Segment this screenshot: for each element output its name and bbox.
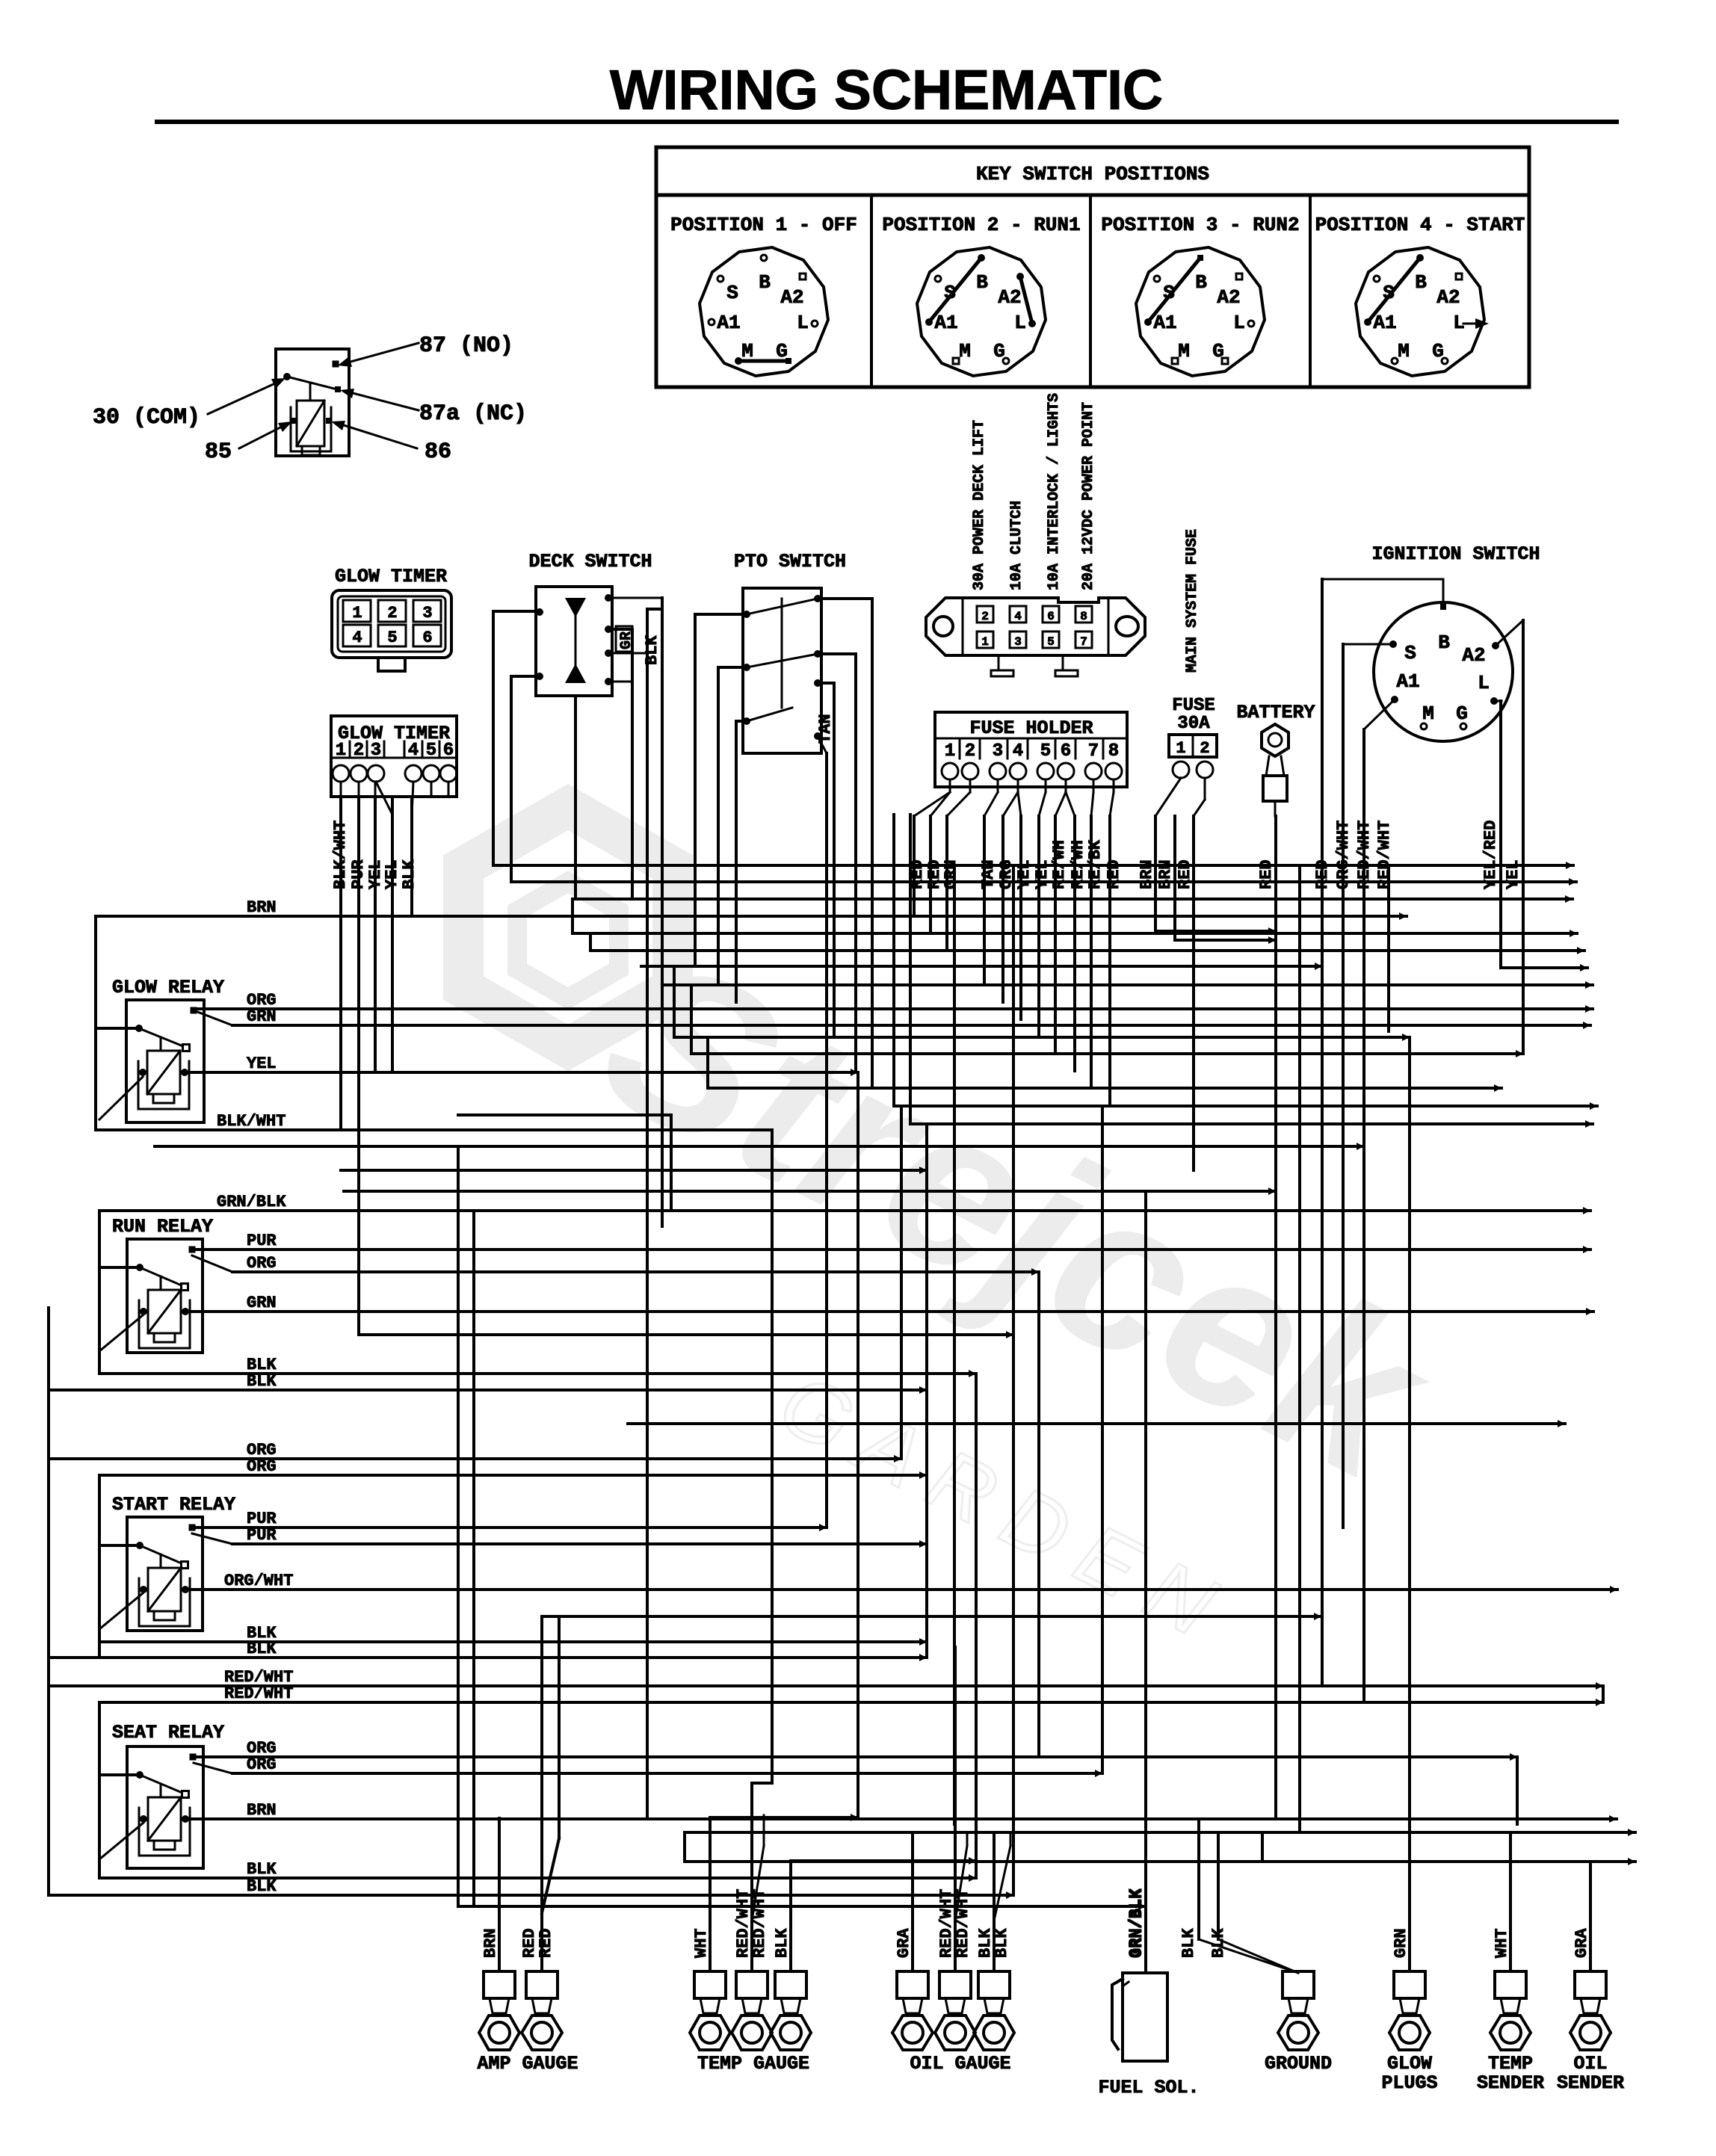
svg-text:2: 2 (981, 610, 989, 623)
svg-text:POSITION 1 - OFF: POSITION 1 - OFF (670, 214, 857, 236)
wire vertical x1033 (771, 1130, 774, 1783)
pto switch stub wires (695, 613, 747, 616)
wire vertical x634 (472, 1211, 475, 1906)
svg-text:OIL GAUGE: OIL GAUGE (910, 2053, 1010, 2075)
svg-text:L: L (797, 312, 809, 334)
wire vertical x1221 (911, 1832, 914, 1971)
svg-text:RUN RELAY: RUN RELAY (112, 1216, 213, 1238)
wire vertical x133 (98, 1211, 101, 1374)
svg-text:A2: A2 (1217, 286, 1240, 309)
svg-text:RED: RED (537, 1928, 555, 1958)
key switch circle position 1 OFF (700, 247, 828, 376)
svg-text:MAIN SYSTEM FUSE: MAIN SYSTEM FUSE (1184, 529, 1201, 673)
svg-text:1: 1 (945, 741, 955, 762)
svg-text:4: 4 (1014, 610, 1022, 623)
svg-text:YEL/RED: YEL/RED (1481, 821, 1500, 889)
svg-text:FUEL SOL.: FUEL SOL. (1098, 2077, 1199, 2098)
wire BLK y2536 (49, 1894, 1013, 1897)
svg-text:B: B (1195, 271, 1207, 294)
wire ORG y2351 (194, 1755, 1517, 1758)
wire vertical x1058 (789, 1861, 792, 1971)
wire vertical x1460 (1090, 816, 1093, 1088)
wire bus y1504 (910, 1122, 1593, 1125)
wire vertical x1630 (1217, 1832, 1220, 1939)
wire vertical x2128 (1589, 1862, 1592, 1971)
wire bus y2452 (685, 1831, 1635, 1834)
wire vertical x886 (661, 598, 664, 1226)
wire vertical x1572 (1173, 816, 1176, 940)
svg-text:M: M (959, 340, 971, 362)
svg-text:YEL: YEL (247, 1054, 277, 1073)
wire vertical x1689 (1261, 1832, 1264, 1862)
title underline (157, 120, 1617, 124)
glow relay (126, 1000, 204, 1122)
svg-text:A2: A2 (998, 286, 1021, 309)
wire vertical x1145 (854, 654, 857, 1071)
svg-text:3: 3 (993, 741, 1003, 762)
wire vertical x1306 (975, 1374, 978, 1878)
wire vertical x985 (735, 721, 738, 1002)
main fuse block body (926, 598, 1145, 655)
wire bus y1594 (344, 1190, 1276, 1193)
label 86 with leader (344, 425, 417, 448)
svg-text:GRN: GRN (247, 1294, 277, 1312)
wire vertical x1438 (1073, 816, 1076, 1071)
pto switch contacts (743, 611, 750, 618)
svg-text:1: 1 (981, 635, 989, 649)
wire ORG y1974 (99, 1474, 927, 1477)
svg-text:2: 2 (354, 741, 364, 761)
wire vertical x1858 (1387, 868, 1390, 1031)
oil gauge terminal GRA (897, 1971, 928, 1998)
wire ORG/WHT y2127 (192, 1588, 1617, 1591)
wire vertical x925 (690, 985, 693, 1054)
svg-text:5: 5 (387, 628, 397, 647)
fuel solenoid (1123, 1973, 1167, 2061)
svg-text:BLK: BLK (1179, 1928, 1198, 1958)
svg-text:FUSE HOLDER: FUSE HOLDER (969, 717, 1093, 739)
svg-text:M: M (1178, 340, 1190, 362)
ignition switch pins (1440, 604, 1446, 610)
wire vertical x1739 (1298, 868, 1301, 1832)
svg-text:BLK: BLK (247, 1640, 277, 1658)
svg-text:G: G (1456, 702, 1468, 725)
wire bus y1295 (1501, 966, 1587, 969)
wire BLK y2218 (49, 1656, 927, 1659)
svg-text:PUR: PUR (247, 1232, 277, 1250)
svg-text:2: 2 (965, 741, 975, 762)
svg-text:GRA: GRA (1573, 1928, 1591, 1958)
svg-text:GLOW RELAY: GLOW RELAY (112, 977, 224, 998)
wire vertical x128 (94, 916, 97, 1130)
svg-text:A1: A1 (1396, 670, 1419, 693)
wire vertical x456 (339, 797, 342, 1130)
svg-text:ORG: ORG (247, 1457, 277, 1476)
glow timer connector tab (378, 658, 405, 671)
svg-text:M: M (1422, 702, 1434, 725)
svg-text:5: 5 (426, 741, 436, 761)
wire vertical x961 (717, 667, 720, 985)
wire vertical x866 (646, 609, 649, 1819)
svg-text:2: 2 (1200, 739, 1209, 758)
svg-text:7: 7 (1088, 741, 1099, 762)
wire bus y2551 (458, 1905, 1146, 1908)
wire vertical x1356 (1012, 868, 1015, 1895)
svg-text:8: 8 (1080, 610, 1087, 623)
run relay (127, 1239, 203, 1353)
wire vertical x525 (391, 797, 394, 1072)
svg-text:BATTERY: BATTERY (1236, 702, 1315, 723)
wire bus y1534 (155, 1145, 1364, 1148)
run relay stub wires (99, 1266, 140, 1269)
svg-text:BLK: BLK (247, 1372, 277, 1391)
wire RED/WHT y2278 (99, 1701, 1603, 1704)
wire vertical x1167 (871, 599, 874, 1088)
svg-text:6: 6 (422, 628, 432, 647)
svg-text:BLK: BLK (247, 1877, 277, 1896)
svg-text:YEL: YEL (1504, 859, 1522, 889)
wire bus y1293 (641, 965, 1322, 968)
wire vertical x1604 (1197, 1819, 1200, 1939)
wire vertical x770 (574, 696, 577, 899)
wire YEL y1435 (185, 1071, 858, 1074)
temp gauge terminal BLK (775, 1971, 806, 1998)
wire bus y1158 (493, 864, 1573, 867)
svg-text:A1: A1 (717, 312, 740, 334)
label 85 with leader (239, 427, 280, 448)
wire vertical x1116 (833, 683, 836, 1037)
svg-text:5: 5 (1040, 741, 1051, 762)
label 87 (NO) with leader (351, 343, 419, 362)
wire vertical x502 (374, 797, 377, 1072)
relay pin detail box (276, 349, 349, 456)
main fuse block mounting tabs (991, 655, 1013, 676)
oil gauge terminal RED/WHT (939, 1971, 971, 1998)
svg-text:A1: A1 (1153, 312, 1176, 334)
wire PUR y1672 (192, 1248, 1590, 1251)
fuse holder box (935, 712, 1127, 787)
wire vertical x1277 (953, 865, 956, 1824)
wire bus y1492 (458, 1113, 671, 1116)
glow timer terminals (333, 765, 349, 782)
wire bus y2490 (791, 1859, 976, 1862)
svg-text:30 (COM): 30 (COM) (93, 405, 200, 430)
wire bus y1456 (708, 1087, 1501, 1090)
wire vertical x1196 (892, 815, 895, 1106)
wire vertical x1366 (1019, 816, 1022, 1019)
svg-text:GROUND: GROUND (1265, 2053, 1332, 2075)
svg-text:GRN/BLK: GRN/BLK (1128, 1888, 1146, 1958)
wire ORG y1952 (49, 1457, 901, 1460)
wire vertical x725 (540, 1616, 543, 1971)
deck switch box (536, 587, 612, 696)
svg-text:B: B (1415, 271, 1427, 294)
glow timer terminal wires (340, 782, 342, 797)
svg-text:10A CLUTCH: 10A CLUTCH (1008, 501, 1025, 590)
svg-text:RED/WHT: RED/WHT (750, 1889, 769, 1958)
svg-text:20A 12VDC POWER POINT: 20A 12VDC POWER POINT (1080, 402, 1097, 590)
wire vertical x1342 (1001, 816, 1004, 1002)
svg-text:TEMP: TEMP (1488, 2053, 1533, 2075)
pto switch box (743, 588, 821, 753)
label 30 (COM) with leader (208, 384, 274, 414)
key switch circle position 4 START (1356, 247, 1484, 376)
wire vertical x551 (410, 797, 413, 916)
wire vertical x1278 (954, 1647, 957, 1971)
ignition switch S wire (1343, 643, 1393, 646)
wire vertical x660 (492, 611, 495, 865)
wire vertical x65 (47, 1308, 50, 1895)
amp gauge terminal BRN (484, 1971, 515, 1998)
wire BLK y1838 (99, 1372, 976, 1375)
wire vertical x1148 (857, 1072, 859, 1817)
wire vertical x1769 (1321, 579, 1324, 1686)
watermark logo hexagon (463, 807, 673, 1048)
wire bus y1786 (359, 1333, 1013, 1336)
svg-text:PUR: PUR (247, 1526, 277, 1545)
svg-text:2: 2 (387, 604, 397, 623)
wire vertical x1533 (1144, 1191, 1147, 1973)
svg-text:7: 7 (1080, 635, 1087, 649)
svg-text:GRN/BLK: GRN/BLK (217, 1193, 286, 1211)
deck switch right stub wires (608, 597, 662, 599)
wire vertical x790 (589, 933, 592, 951)
glow timer terminal strip (331, 716, 457, 797)
wire vertical x1546 (1154, 816, 1157, 931)
svg-text:A1: A1 (1373, 312, 1396, 334)
svg-text:86: 86 (425, 439, 451, 465)
svg-text:87a (NC): 87a (NC) (419, 401, 527, 427)
wire GRN/BLK y1620 (99, 1209, 1590, 1212)
wire ORG y1350 (194, 1007, 1593, 1010)
svg-text:L: L (1233, 312, 1245, 334)
fuse holder terminals (942, 763, 958, 779)
wire GRN y1372 (232, 1024, 1590, 1027)
oil sender terminal (1575, 1971, 1606, 1998)
svg-text:BRN: BRN (481, 1928, 500, 1958)
wire vertical x480 (357, 797, 360, 1335)
svg-text:85: 85 (205, 439, 232, 465)
wire vertical x1317 (983, 816, 986, 985)
svg-text:3: 3 (422, 604, 432, 623)
wire bus y1203 (575, 898, 1573, 901)
wire vertical x2145 (1602, 1686, 1605, 1702)
start relay (127, 1517, 203, 1631)
svg-text:KEY SWITCH POSITIONS: KEY SWITCH POSITIONS (976, 163, 1209, 185)
svg-text:5: 5 (1047, 635, 1055, 649)
wire vertical x613 (457, 1146, 460, 1906)
svg-text:IGNITION SWITCH: IGNITION SWITCH (1371, 543, 1540, 565)
deck switch contacts (565, 598, 586, 617)
ignition switch circle (1374, 602, 1513, 741)
ignition switch B wire (1322, 579, 1443, 607)
key switch circle position 2 RUN1 (917, 247, 1046, 376)
seat relay stub wires (99, 1773, 140, 1776)
wire vertical x133 (98, 1702, 101, 1878)
svg-text:A1: A1 (934, 312, 957, 334)
temp gauge terminal WHT (694, 1971, 726, 1998)
key switch circle position 3 RUN2 (1136, 247, 1265, 376)
svg-text:RED: RED (1313, 859, 1332, 889)
svg-text:PTO SWITCH: PTO SWITCH (734, 551, 846, 572)
svg-text:AMP GAUGE: AMP GAUGE (477, 2053, 578, 2075)
wire bus y1180 (511, 880, 1576, 883)
wire vertical x898 (670, 1115, 673, 1211)
wire vertical x916 (683, 1832, 686, 1862)
svg-text:ORG: ORG (247, 1254, 277, 1273)
svg-text:4: 4 (408, 741, 419, 761)
wire vertical x1475 (1101, 1106, 1104, 1773)
wire vertical x1485 (1108, 816, 1111, 1106)
svg-text:FUSE: FUSE (1172, 696, 1215, 716)
wire ORG y2373 (232, 1772, 1102, 1775)
wire vertical x1886 (1408, 1037, 1411, 1971)
wire BLK/WHT y1512 (96, 1128, 772, 1131)
svg-text:A2: A2 (780, 286, 803, 309)
wire bus y1480 (894, 1105, 1597, 1108)
svg-text:A2: A2 (1436, 286, 1460, 309)
wire vertical x2021 (1509, 1832, 1512, 1971)
svg-text:GRN: GRN (247, 1007, 277, 1026)
seat relay (127, 1746, 203, 1868)
svg-text:RED/WHT: RED/WHT (1375, 821, 1394, 889)
wire BLK y2513 (99, 1877, 976, 1879)
oil gauge RED/WHT second wire (955, 1846, 967, 1921)
wire vertical x1330 (993, 1832, 996, 1971)
wire PUR y2066 (232, 1542, 927, 1545)
svg-text:10A INTERLOCK / LIGHTS: 10A INTERLOCK / LIGHTS (1046, 393, 1063, 590)
wire bus y1410 (691, 1052, 1523, 1055)
svg-text:GRN: GRN (1392, 1928, 1410, 1958)
svg-text:BLK: BLK (247, 1860, 277, 1879)
svg-text:BLK: BLK (773, 1928, 791, 1958)
svg-text:WIRING SCHEMATIC: WIRING SCHEMATIC (610, 58, 1163, 121)
wire vertical x1825 (1362, 729, 1365, 1702)
wire vertical x766 (571, 899, 574, 933)
label 87a (NC) with leader (353, 393, 419, 410)
svg-text:4: 4 (1013, 741, 1023, 762)
svg-text:PLUGS: PLUGS (1381, 2072, 1437, 2094)
svg-text:TEMP GAUGE: TEMP GAUGE (697, 2053, 809, 2075)
temp gauge terminal RED/WHT (736, 1971, 768, 1998)
wire bus y1566 (341, 1169, 927, 1172)
svg-text:B: B (1438, 631, 1450, 654)
svg-text:BLK: BLK (643, 635, 661, 665)
svg-text:GRA: GRA (895, 1928, 913, 1958)
wire vertical x1106 (825, 753, 828, 1528)
wire vertical x930 (694, 614, 697, 966)
oil gauge BLK second wire (994, 1846, 1010, 1921)
wire vertical x1597 (1192, 816, 1195, 1170)
fuse 30A terminals (1173, 762, 1189, 778)
wire vertical x684 (510, 676, 513, 882)
wire bus y1318 (662, 983, 1593, 986)
svg-text:1: 1 (1176, 739, 1185, 758)
amp gauge second RED wire (542, 1838, 559, 1913)
svg-text:1: 1 (352, 604, 362, 623)
battery terminal symbol (1262, 724, 1288, 756)
ignition switch A2 wire (1496, 620, 1523, 646)
ignition switch A1 wire (1364, 699, 1395, 729)
wire bus y1272 (590, 949, 1584, 952)
svg-text:A2: A2 (1462, 644, 1485, 667)
svg-text:POSITION 3 - RUN2: POSITION 3 - RUN2 (1101, 214, 1299, 236)
wire bus y2386 (752, 1782, 772, 1785)
wire PUR y2044 (192, 1526, 827, 1529)
wire BLK y1860 (49, 1389, 927, 1391)
ground converging wires (1199, 1939, 1298, 1973)
svg-text:S: S (1404, 642, 1416, 664)
glow timer connector body (332, 590, 451, 658)
svg-text:SENDER: SENDER (1477, 2072, 1544, 2094)
wire ORG y1702 (232, 1270, 1039, 1273)
wire vertical x1206 (900, 1106, 903, 1459)
wire vertical x947 (706, 1037, 709, 1088)
ignition switch L wire (1494, 700, 1501, 702)
svg-text:BRN: BRN (247, 898, 277, 917)
svg-text:GLOW TIMER: GLOW TIMER (335, 566, 447, 587)
svg-text:B: B (976, 271, 988, 294)
svg-text:BLK: BLK (993, 1928, 1011, 1958)
svg-text:RED/WHT: RED/WHT (224, 1684, 293, 1703)
fuel sol wire (1145, 1663, 1146, 1973)
svg-text:ORG: ORG (247, 1755, 277, 1774)
svg-text:6: 6 (443, 741, 454, 761)
glow relay stub wires (96, 1027, 139, 1030)
wire vertical x950 (709, 1817, 712, 1971)
relay detail coil (297, 401, 324, 446)
svg-text:WHT: WHT (1493, 1928, 1511, 1958)
wire vertical x1267 (945, 816, 948, 951)
wire bus y1388 (674, 1036, 1410, 1039)
main fuse block fuse squares (977, 606, 993, 623)
wire vertical x902 (673, 966, 676, 1037)
fuse 30A box (1169, 735, 1217, 757)
amp gauge terminal RED (526, 1971, 558, 1998)
svg-text:RED/WHT: RED/WHT (1355, 821, 1374, 889)
svg-text:3: 3 (371, 741, 381, 761)
svg-text:6: 6 (1047, 610, 1055, 623)
svg-text:START RELAY: START RELAY (112, 1494, 235, 1516)
svg-text:BLK: BLK (400, 859, 419, 889)
svg-text:M: M (1398, 340, 1410, 362)
wire bus y2163 (542, 1615, 1321, 1618)
deck switch GR label box (616, 626, 632, 652)
wire bus y1905 (628, 1422, 1565, 1425)
wire vertical x1390 (1037, 816, 1040, 1037)
oil gauge terminal BLK (978, 1971, 1010, 1998)
svg-text:RED/WHT: RED/WHT (954, 1889, 972, 1958)
svg-text:BLK/WHT: BLK/WHT (217, 1112, 286, 1131)
svg-text:30A: 30A (1177, 714, 1210, 734)
wire vertical x1240 (925, 1124, 928, 1658)
wire vertical x2038 (1522, 620, 1525, 1054)
svg-text:ORG/WHT: ORG/WHT (224, 1572, 293, 1590)
svg-text:3: 3 (1014, 635, 1022, 649)
wire GRN y1755 (185, 1310, 1593, 1313)
wire vertical x1707 (1274, 816, 1277, 1819)
temp gauge RED/WHT second wire (752, 1846, 764, 1921)
wire bus y1246 (1155, 930, 1276, 933)
wire bus y2491 (685, 1860, 1635, 1863)
relay detail blade and pins (283, 373, 291, 380)
svg-text:87 (NO): 87 (NO) (419, 333, 513, 359)
wire vertical x133 (98, 1475, 101, 1658)
temp sender terminal (1495, 1971, 1526, 1998)
wire RED/WHT y2256 (49, 1684, 1603, 1687)
svg-text:BRN: BRN (247, 1801, 277, 1820)
svg-text:L: L (1478, 672, 1490, 694)
